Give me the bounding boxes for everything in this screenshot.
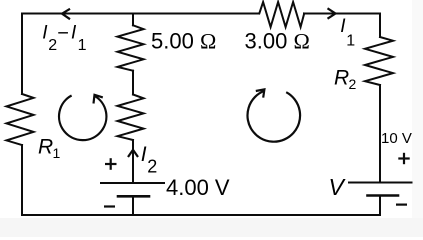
wire below left battery [132, 196, 134, 215]
label R2 [334, 67, 357, 93]
wire right upper [379, 14, 381, 38]
resistor 3.00 ohm [259, 2, 304, 27]
current arrow I1 (right-pointing on top wire) [328, 8, 336, 18]
wire left lower [21, 145, 23, 215]
label I1 [340, 16, 355, 50]
resistor 5.00 ohm [118, 25, 144, 70]
svg-text:5.00 Ω: 5.00 Ω [151, 29, 216, 54]
battery V short plate [368, 194, 399, 197]
svg-text:R: R [334, 67, 349, 90]
wire middle branch upper [132, 14, 134, 26]
minus sign right battery [396, 204, 407, 206]
svg-text:1: 1 [53, 145, 61, 161]
svg-text:4.00 V: 4.00 V [166, 175, 230, 200]
svg-text:1: 1 [346, 33, 355, 50]
svg-text:2: 2 [349, 76, 357, 92]
plus sign left battery [105, 158, 117, 170]
loop arrow right (clockwise arc) [247, 91, 300, 142]
svg-text:1: 1 [78, 37, 87, 54]
svg-text:3.00 Ω: 3.00 Ω [245, 29, 310, 54]
loop arrow left (counterclockwise arc) [59, 96, 106, 141]
wire middle lower with I2 arrow shaft [132, 140, 134, 182]
resistor 1.00 ohm [118, 95, 144, 141]
svg-text:R: R [38, 136, 53, 159]
wire top-left segment [22, 13, 259, 15]
minus sign left battery [104, 205, 115, 207]
svg-text:I: I [71, 23, 77, 44]
resistor R2 [365, 37, 393, 85]
svg-text:−: − [57, 23, 69, 45]
plus sign right battery [398, 153, 409, 164]
svg-text:10 V: 10 V [381, 130, 412, 147]
wire left [21, 14, 23, 95]
battery V long plate [349, 182, 412, 184]
grey band bottom [0, 218, 423, 237]
grey band right [412, 0, 423, 218]
label I2 [141, 143, 158, 176]
battery 4.00 V short plate [118, 195, 149, 198]
current arrow I2-I1 (left-pointing on top wire) [62, 9, 70, 19]
battery 4.00 V long plate [101, 182, 164, 184]
current arrow I2 (up-pointing on middle branch) [128, 150, 138, 157]
svg-text:V: V [329, 174, 347, 200]
wire below right battery [379, 196, 381, 216]
wire right mid [379, 85, 381, 182]
svg-text:2: 2 [147, 156, 157, 176]
label R1 [38, 136, 61, 162]
wire top-right segment [304, 13, 380, 15]
svg-text:2: 2 [48, 37, 57, 54]
wire bottom [22, 214, 380, 216]
label I2-I1 [42, 23, 86, 55]
wire middle mid [132, 71, 134, 95]
resistor R1 [7, 94, 34, 145]
svg-text:I: I [141, 143, 147, 166]
svg-text:I: I [340, 16, 346, 37]
